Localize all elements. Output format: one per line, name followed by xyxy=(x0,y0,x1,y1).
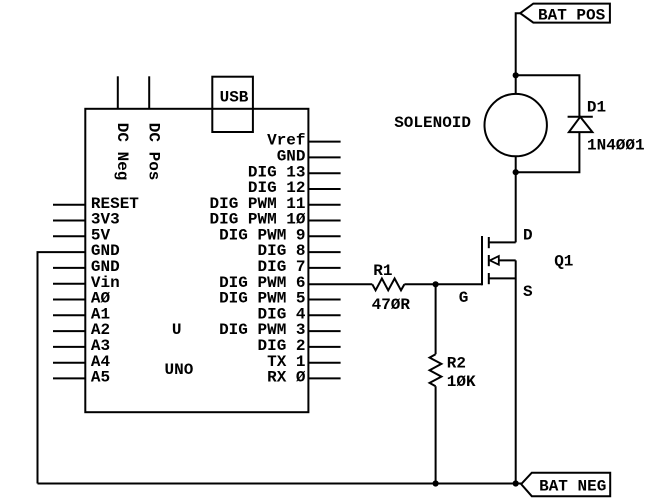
svg-text:SOLENOID: SOLENOID xyxy=(394,114,471,132)
svg-text:R2: R2 xyxy=(447,355,466,373)
svg-text:RX Ø: RX Ø xyxy=(267,369,306,387)
pin DIG PWM 3 xyxy=(308,330,340,332)
pin DIG 12 xyxy=(308,188,340,190)
junction dot solenoid bottom node xyxy=(513,169,519,175)
pin DIG PWM 10 xyxy=(308,220,340,222)
pin DIG 4 xyxy=(308,314,340,316)
pin DIG 7 xyxy=(308,267,340,269)
junction dot R2 bottom node xyxy=(433,480,439,486)
pin TX 1 xyxy=(308,362,340,364)
solenoid coil xyxy=(485,94,547,156)
pin DIG PWM 11 xyxy=(308,204,340,206)
connector flag BAT POS xyxy=(520,4,610,25)
pin A2 xyxy=(53,330,85,332)
svg-text:D: D xyxy=(523,226,533,244)
svg-text:1N4ØØ1: 1N4ØØ1 xyxy=(587,136,645,154)
wire R1 to gate node xyxy=(404,283,435,285)
pin DIG 13 xyxy=(308,172,340,174)
transistor Q1 (N-MOSFET) xyxy=(482,236,516,285)
pin 3V3 xyxy=(53,220,85,222)
pin GND xyxy=(53,267,85,269)
wire BAT POS flag to solenoid top xyxy=(516,13,521,94)
pin DIG 2 xyxy=(308,346,340,348)
pin GND with wire to BAT NEG rail xyxy=(38,252,86,483)
svg-text:R1: R1 xyxy=(373,262,392,280)
wire Q1 source to BAT NEG rail xyxy=(515,260,517,483)
wire BAT NEG bottom rail xyxy=(38,483,522,485)
pin DIG 8 xyxy=(308,251,340,253)
Arduino UNO body U xyxy=(85,109,308,412)
pin A5 xyxy=(53,377,85,379)
diode D1 xyxy=(568,117,593,132)
wire gate node to R2 top xyxy=(435,284,437,354)
svg-text:47ØR: 47ØR xyxy=(372,296,411,314)
wire diode D1 anode to solenoid bottom node xyxy=(516,132,580,172)
svg-text:DC Pos: DC Pos xyxy=(145,123,163,181)
pin DC Pos xyxy=(148,76,150,109)
pin GND xyxy=(308,156,340,158)
svg-text:1ØK: 1ØK xyxy=(447,373,476,391)
svg-text:BAT POS: BAT POS xyxy=(538,6,606,24)
wire solenoid bottom to Q1 drain xyxy=(515,156,517,242)
pin RESET xyxy=(53,204,85,206)
pin DIG PWM 5 xyxy=(308,299,340,301)
junction dot solenoid top node xyxy=(513,72,519,78)
pin A4 xyxy=(53,362,85,364)
wire gate node to Q1 gate xyxy=(436,283,482,285)
pin A0 xyxy=(53,299,85,301)
pin DIG PWM 9 xyxy=(308,235,340,237)
junction dot gate node xyxy=(433,281,439,287)
svg-text:S: S xyxy=(523,283,533,301)
wire R2 bottom to BAT NEG rail xyxy=(435,386,437,483)
junction dot source bottom node xyxy=(513,480,519,486)
svg-text:DC Neg: DC Neg xyxy=(113,123,131,181)
pin A3 xyxy=(53,346,85,348)
resistor R2 xyxy=(430,354,442,386)
connector flag BAT NEG xyxy=(521,473,610,497)
svg-text:G: G xyxy=(459,289,469,307)
pin A1 xyxy=(53,314,85,316)
svg-text:BAT NEG: BAT NEG xyxy=(539,477,606,495)
resistor R1 xyxy=(372,279,404,291)
wire solenoid top node to diode D1 cathode xyxy=(516,75,580,117)
svg-text:A5: A5 xyxy=(91,369,110,387)
svg-text:U: U xyxy=(172,321,182,339)
svg-text:USB: USB xyxy=(220,89,249,107)
svg-text:UNO: UNO xyxy=(165,361,194,379)
svg-text:Q1: Q1 xyxy=(554,253,573,271)
USB connector box xyxy=(212,77,253,132)
wire DIG PWM 6 pin to resistor R1 xyxy=(308,283,372,285)
svg-text:D1: D1 xyxy=(587,98,606,116)
pin RX 0 xyxy=(308,377,340,379)
pin Vin xyxy=(53,283,85,285)
pin 5V xyxy=(53,235,85,237)
pin Vref xyxy=(308,141,340,143)
pin DC Neg xyxy=(117,76,119,109)
